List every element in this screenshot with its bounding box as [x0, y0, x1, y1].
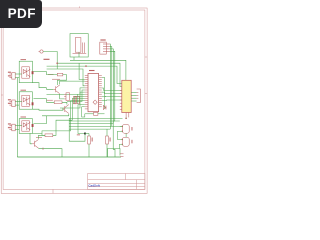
wire Q2 emitter down	[60, 94, 64, 99]
opto OK1 green box	[19, 61, 32, 82]
ground rail left vertical	[16, 78, 18, 157]
wire bus L4	[78, 94, 85, 104]
wires above IC	[47, 60, 126, 86]
wires IC right to relay	[102, 77, 122, 108]
wire X3 to OK3	[15, 126, 22, 130]
IC1 bottom tab	[94, 112, 98, 115]
wire crystal down	[74, 52, 79, 60]
wire bus L7	[42, 101, 85, 134]
wire net above IC 4	[47, 69, 85, 86]
wire bus L6	[72, 98, 85, 120]
transistor Q4	[32, 139, 39, 148]
connector X4 output	[137, 89, 141, 103]
connector SV1 label	[100, 39, 105, 41]
wire Q2 collector up	[60, 81, 85, 84]
PDF badge	[0, 0, 42, 28]
relay K1 body	[122, 80, 131, 112]
wire bus L1	[47, 88, 85, 94]
junction dot	[84, 132, 86, 134]
wire R4	[88, 134, 90, 158]
resistor R4 label	[92, 138, 93, 142]
transistor T2 label	[131, 140, 132, 144]
wire bus down 5	[69, 128, 110, 130]
junction above IC	[56, 62, 58, 64]
title block	[88, 174, 145, 190]
transistor Q2 label	[52, 78, 60, 80]
connector X3	[9, 124, 15, 131]
transistor T2 pins	[122, 139, 123, 145]
connector JP2 small	[64, 93, 69, 101]
transistor T2	[123, 137, 130, 146]
wire SV1 down 3	[110, 49, 114, 124]
Q4 red mark	[42, 148, 44, 151]
wire ICr 5	[102, 77, 106, 108]
opto OK2 name	[21, 89, 27, 91]
frame tick bottom	[52, 189, 54, 193]
sheet frame outer border	[1, 6, 147, 193]
transistor T1 pins	[122, 126, 123, 132]
wire Q3 emitter	[42, 114, 69, 116]
left pin bus staircase	[42, 88, 85, 134]
wire bus down 4	[69, 125, 122, 127]
resistor R3	[45, 134, 53, 137]
IC1 body	[88, 74, 99, 112]
wire net above IC 3	[47, 66, 122, 83]
frame tick right 2	[145, 93, 147, 95]
wire OK3 bottom	[32, 133, 45, 135]
wire Q4 collector	[39, 135, 46, 139]
wire SV1 down 1	[109, 44, 112, 129]
resistor pack RN1	[73, 97, 79, 104]
wire ICr 3	[102, 95, 122, 98]
resistor R2 label	[47, 99, 53, 101]
wire SV1 down 2	[110, 47, 112, 127]
frame tick right	[145, 56, 147, 58]
wire bus L2	[67, 90, 85, 102]
wire net above IC 5	[79, 63, 85, 79]
connector X2	[9, 100, 15, 107]
wire bus L3	[60, 92, 85, 108]
opto OK2 green box	[19, 92, 32, 109]
junction above IC 2	[85, 65, 87, 67]
wire ICr 1	[102, 88, 122, 90]
connector X4 marks	[137, 93, 139, 99]
relay K1 right pins	[131, 93, 136, 102]
wire bus L9	[82, 107, 85, 117]
wire R2 right	[62, 102, 67, 104]
crystal group green box	[70, 34, 88, 57]
transistor Q3	[62, 105, 69, 114]
wire VCC to rail	[43, 52, 57, 70]
bottom loop	[108, 149, 120, 158]
wire bus L8	[78, 105, 85, 134]
resistor R5 label	[109, 138, 110, 142]
diode D2 below relay pins	[103, 106, 106, 110]
wire Q4 emitter	[39, 149, 63, 157]
resistor R1 label	[48, 74, 54, 76]
resistor R2	[54, 101, 62, 104]
connector X3 label	[8, 123, 11, 128]
wire OK1 bottom right	[32, 83, 46, 88]
wire R5	[106, 129, 108, 157]
resistor R5 vertical	[106, 136, 109, 144]
IC1 pin1 diamond	[93, 100, 97, 104]
wire ICr 2	[102, 92, 122, 94]
opto OK1 symbol	[22, 67, 30, 78]
supply symbol VCC	[39, 50, 44, 53]
IC1 left pin stubs (red)	[85, 75, 88, 109]
bottom red element	[120, 154, 124, 157]
transistor T1 label	[131, 127, 132, 131]
opto OK2 pin blob	[32, 102, 34, 105]
transistor Q4 label	[36, 137, 42, 139]
connector X1	[9, 73, 15, 80]
ground label	[77, 134, 80, 135]
transistor T1	[123, 125, 130, 134]
wire R1 left	[47, 72, 58, 75]
wire IC tab left	[85, 113, 94, 115]
wire R1 right to Q2	[58, 75, 67, 85]
opto OK2 symbol	[22, 95, 30, 106]
relay K1 left pin stubs	[120, 90, 122, 109]
wire OK2 bottom right	[32, 109, 63, 110]
wire OK1 output right	[34, 71, 47, 73]
relay K1 bottom pins	[126, 113, 129, 118]
wire IC tab right	[98, 113, 105, 115]
wire bus down 2	[69, 120, 120, 122]
frame tick left	[1, 94, 3, 96]
wire R4 top	[85, 133, 89, 135]
wire bus down 1	[69, 117, 122, 119]
junction relay bottom	[125, 118, 127, 120]
wire Q3 base	[61, 109, 64, 110]
wire OK2 output right	[34, 98, 47, 100]
opto OK3 symbol	[22, 121, 30, 131]
wire Q4 base	[30, 133, 32, 143]
connector SV1 body	[100, 42, 110, 54]
IC1 label	[89, 70, 95, 72]
opto OK1 label	[44, 58, 50, 60]
opto OK3 name	[21, 116, 27, 118]
wire X2 to OK2	[15, 102, 22, 106]
wire net above IC 1	[70, 60, 126, 80]
connector X1 label	[8, 72, 11, 77]
opto OK1 pin blob	[32, 71, 34, 74]
opto OK1 name	[21, 59, 27, 61]
svg-text:CadSoft: CadSoft	[88, 183, 100, 187]
wire R2 left	[47, 99, 55, 103]
resistor R1	[57, 73, 63, 76]
wire R3 right	[53, 120, 73, 135]
wire bus left down	[69, 118, 85, 141]
crystal Q1	[73, 38, 87, 54]
IC1 right pin stubs (red)	[99, 75, 102, 107]
wires right column	[118, 117, 127, 148]
wire OK3 output right	[34, 116, 47, 124]
connector X2 label	[8, 99, 11, 104]
bottom ground rail	[17, 156, 121, 158]
wire bus down 3	[69, 123, 113, 125]
wire SV1 down 4	[110, 51, 115, 157]
opto OK3 pin blob	[32, 124, 34, 127]
wire Q2 base	[47, 88, 54, 90]
bus lines below IC	[69, 118, 122, 129]
wire bus L5	[75, 96, 85, 104]
wire X1 to OK1	[15, 74, 22, 78]
resistor R4 vertical	[88, 136, 91, 144]
opto OK3 green box	[19, 119, 32, 134]
sheet frame inner border	[3, 10, 145, 189]
transistor Q2	[53, 85, 60, 94]
frame tick top	[79, 6, 81, 8]
wire net above IC 2	[57, 63, 122, 86]
wire ICr 4	[102, 99, 122, 102]
